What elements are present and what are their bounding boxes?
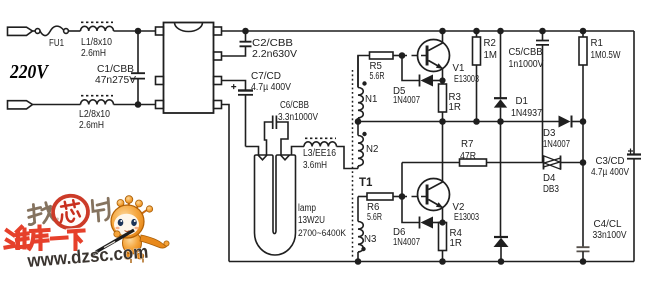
resistor R7 [460,159,487,166]
svg-text:C2/CBB: C2/CBB [252,38,293,49]
winding N1 [358,56,363,122]
svg-text:1M: 1M [484,50,497,61]
inductor L3 [304,138,336,146]
capacitor C7 (electrolytic) [222,81,254,147]
node junction C1 top [136,29,141,34]
svg-text:E13003: E13003 [454,74,479,85]
svg-text:N3: N3 [364,234,376,245]
svg-text:C7/CD: C7/CD [251,71,281,82]
node C5 top [540,29,545,34]
wire L1 to bridge pin1 [114,30,156,32]
svg-text:R2: R2 [484,38,496,49]
下 [69,231,84,250]
capacitor C5 [536,31,549,163]
blush + mouth [115,227,119,230]
wire R7/diac line [402,162,583,164]
node D1 top [498,29,503,34]
svg-text:C4/CL: C4/CL [594,219,623,230]
pen/stick [96,230,134,252]
svg-text:T1: T1 [359,177,373,189]
node R4 bottom rail [440,259,445,264]
svg-text:R1: R1 [591,38,603,49]
node R2 top [474,29,479,34]
svg-text:L3/EE16: L3/EE16 [303,148,336,159]
wire bridge pin4 to bottom rail [222,105,230,262]
node junction C1 bottom [136,102,141,107]
right arm swoosh [140,235,168,248]
resistor R5 [358,52,402,88]
diac D4 DB3 [544,156,561,170]
capacitor C2 [222,31,252,56]
svg-text:1n1000V: 1n1000V [509,59,544,70]
svg-text:220V: 220V [9,61,49,83]
svg-text:DB3: DB3 [543,184,559,195]
resistor R2 [473,31,481,122]
wire bottom rail (0V bus) [229,261,634,263]
wire node down through C4 [582,122,584,248]
node V1 base [400,53,405,58]
watermark text 维库一下 (red) [6,227,84,250]
watermark magnifier ring with 芯 [52,195,89,230]
wire L2 to bridge pin3 [114,104,156,106]
inductor L2 [81,96,114,105]
fuse FU1 [35,26,68,35]
transistor V2 E13003 [418,122,450,223]
crown stalks [120,202,148,216]
capacitor C6 [265,116,289,156]
node D1 midpoint [498,119,503,124]
svg-text:1N4007: 1N4007 [393,95,420,106]
svg-text:1R: 1R [450,238,462,249]
svg-text:L2/8x10: L2/8x10 [79,109,111,120]
svg-text:1M0.5W: 1M0.5W [591,50,622,61]
node R1 top [581,29,586,34]
维 [6,231,15,248]
phase dot N2 [362,132,366,136]
resistor R6 [358,193,402,200]
svg-text:V1: V1 [453,63,465,74]
transistor V1 E13003 [418,31,450,84]
capacitor C1 [131,31,145,105]
svg-text:1R: 1R [449,102,461,113]
lamp tube (13W 2U) [255,155,296,255]
node D4 right [581,160,586,165]
legs [124,254,132,260]
svg-text:1N4937: 1N4937 [511,108,542,119]
node N3 bottom rail [356,259,361,264]
wire terminal to L2 [33,104,81,106]
svg-text:C5/CBB: C5/CBB [509,47,543,58]
wire D1 node to D2 [500,122,502,238]
diode D5 [402,56,443,87]
bridge rectifier U1 (DIP package) [156,23,222,114]
resistor R4 [439,223,447,262]
svg-text:R7: R7 [461,139,473,150]
resistor R1 [579,31,587,122]
svg-text:D1: D1 [516,96,528,107]
svg-text:D3: D3 [543,128,555,139]
svg-text:www.dzsc.com: www.dzsc.com [26,241,149,272]
node C4 bottom rail [581,259,586,264]
wire top rail (+bus) [222,30,635,32]
diode D2 [494,237,509,262]
svg-text:C3/CD: C3/CD [596,156,625,167]
input terminal top (L) [8,27,33,35]
lamp filament left [258,155,267,160]
库 [30,227,49,249]
winding N3 [358,197,363,262]
node R2 midpoint [474,119,479,124]
wire lamp lead4 to L3 [292,147,305,156]
wire fuse to L1 [68,30,80,32]
svg-text:3.6mH: 3.6mH [303,160,327,171]
node D2 bottom rail [499,259,504,264]
capacitor C3 (electrolytic) [627,149,641,159]
phase dot N3 [361,247,365,251]
watermark text 找芯片 [28,198,110,226]
node V2 base [400,194,405,199]
svg-text:L1/8x10: L1/8x10 [81,37,113,48]
input terminal bottom (N) [8,101,33,109]
wire base to V1 [402,55,426,57]
node V1 collector top rail [440,29,445,34]
wire base to V2 [402,196,426,198]
node R3 midpoint [440,119,445,124]
capacitor C4 [577,247,590,261]
svg-text:C6/CBB: C6/CBB [280,100,309,111]
svg-text:N1: N1 [365,94,377,105]
resistor R3 [439,84,447,122]
svg-text:2.6mH: 2.6mH [79,120,104,131]
svg-text:N2: N2 [366,144,378,155]
wire terminal to fuse [33,30,36,32]
face [114,214,139,236]
node D3 cathode / R1 bottom [581,119,586,124]
lamp filament right [281,155,290,160]
svg-text:5.6R: 5.6R [370,71,385,82]
svg-text:13W2U: 13W2U [298,215,325,226]
winding N2 [358,122,363,169]
wire C7 to lamp lead1 [246,147,259,156]
svg-text:4.7µ 400V: 4.7µ 400V [591,167,629,178]
svg-text:33n100V: 33n100V [593,230,627,241]
node V2 emitter / D6 [440,220,445,225]
svg-text:E13003: E13003 [454,212,479,223]
片 [92,198,109,221]
diode D3 [559,116,584,128]
node V1 emitter / D5 [440,78,445,83]
svg-text:2700~6400K: 2700~6400K [298,228,347,239]
svg-text:47n275V: 47n275V [95,75,137,86]
svg-text:3.3n1000V: 3.3n1000V [278,112,318,123]
body [123,232,142,254]
wire midpoint line [358,121,559,123]
diode D6 [402,197,443,229]
watermark logo dzsc [6,195,170,271]
svg-text:47R: 47R [460,151,476,162]
svg-text:2.2n630V: 2.2n630V [252,49,298,60]
svg-text:1N4007: 1N4007 [393,237,420,248]
一 [52,238,67,239]
node midpoint left (N1/N2 junction) [356,119,361,124]
phase dot N1 [362,81,366,85]
svg-text:D4: D4 [543,173,556,184]
svg-text:1N4007: 1N4007 [543,139,570,150]
wire right rail [633,31,635,262]
找 [28,204,42,225]
wire L3 to N2 bottom [337,147,359,169]
transformer T1 core [352,70,354,258]
node C2 top [243,29,248,34]
svg-text:5.6R: 5.6R [367,212,382,223]
svg-text:FU1: FU1 [49,38,64,49]
svg-text:C1/CBB: C1/CBB [97,64,134,75]
svg-text:2.6mH: 2.6mH [81,48,106,59]
eyes [118,219,124,226]
svg-text:4.7µ 400V: 4.7µ 400V [251,82,291,93]
inductor L1 [81,22,114,31]
head [111,205,144,238]
left hand [114,231,120,237]
wire R7 line to V2 base [401,163,403,197]
diode D1 1N4937 [494,31,507,122]
svg-text:lamp: lamp [298,203,316,214]
watermark mascot [93,196,170,263]
